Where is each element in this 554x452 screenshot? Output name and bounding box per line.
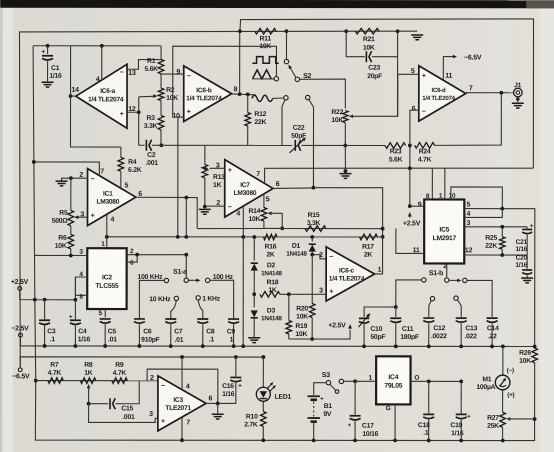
wire bottom cap rail y=346	[20, 345, 534, 348]
switch S1-b contact right	[463, 278, 467, 282]
svg-text:5.6K: 5.6K	[144, 66, 158, 73]
wire IC1 pin 7 left to bus	[34, 162, 100, 176]
node C12 / cap rail	[427, 344, 431, 348]
square wave symbol	[252, 57, 278, 64]
svg-text:3: 3	[149, 411, 153, 418]
wiper arrow R22	[349, 114, 353, 118]
wire IC7 pin 7 up to rail-168	[264, 168, 266, 183]
svg-text:C21: C21	[516, 239, 528, 246]
wire contact-B down to IC7 output line	[309, 99, 314, 187]
wire R2 wiper column down to pin 12 node	[138, 97, 140, 112]
node IC6-a pin4 junction	[100, 44, 104, 48]
switch S3 contact left	[326, 380, 330, 384]
svg-text:R16: R16	[265, 243, 277, 250]
node IC1-out column / rail-237	[184, 235, 188, 239]
wire -6.5V rail: left border up and across top (R11/R21 rail)	[19, 31, 417, 368]
wire R27 bottom to bottom rail	[502, 427, 504, 440]
node rail-228 right / R17 column	[381, 227, 385, 231]
node R13 bottom / IC7 pin2 / ground	[203, 205, 207, 209]
svg-text:R19: R19	[295, 323, 307, 330]
switch S1-a contact 1KHz	[196, 296, 200, 300]
diode D1 1N4148	[309, 243, 316, 245]
resistor R1 5.6K	[160, 46, 162, 59]
wire R5 to R6	[70, 226, 72, 234]
capacitor C7 .01	[165, 318, 176, 320]
capacitor C4 1/16	[74, 300, 76, 320]
svg-text:2K: 2K	[364, 252, 373, 259]
node C17 / bottom rail	[353, 438, 357, 442]
svg-text:−: −	[187, 73, 191, 80]
ground under D3	[248, 337, 260, 339]
node C8 / cap rail	[201, 344, 205, 348]
capacitor C2 .001	[145, 140, 147, 151]
switch S2 contact (square)	[284, 59, 288, 63]
node C13 / cap rail	[459, 344, 463, 348]
potentiometer R27 25K	[500, 412, 506, 427]
node IC1 pin4 / IC2 pin1	[105, 235, 109, 239]
capacitor C23 20pF bracket	[346, 31, 365, 56]
svg-text:1/4 TLE2074: 1/4 TLE2074	[88, 96, 124, 103]
node C4 / IC2 pin4-8 / rail-300	[74, 298, 78, 302]
wire IC4 output rail	[411, 380, 462, 382]
wire IC1 pin 2 stub	[71, 177, 88, 179]
wire R13 wiper to IC7 pin 3	[210, 167, 225, 169]
svg-text:7: 7	[100, 168, 104, 175]
svg-text:10K: 10K	[166, 95, 178, 102]
node C5 / cap rail	[103, 344, 107, 348]
svg-text:1/4 TLE2074: 1/4 TLE2074	[186, 95, 222, 102]
svg-text:D3: D3	[267, 307, 276, 314]
node LED1 / rail-357	[261, 355, 265, 359]
potentiometer R13 1K	[204, 145, 206, 164]
op-amp IC6-c 1/4 TLE2074	[326, 247, 374, 301]
diode D2 1N4148	[251, 262, 258, 264]
switch S1-a contact 100KHz	[164, 278, 168, 282]
svg-text:10: 10	[449, 193, 456, 200]
node R6 bottom / IC2 pin 3	[69, 254, 73, 258]
wire IC4 ground pin to bottom rail	[394, 404, 396, 440]
svg-text:R22: R22	[331, 109, 343, 116]
node IC3 output	[216, 402, 220, 406]
wire D1 node down to R20	[311, 255, 313, 304]
node bus / rail-300	[33, 298, 37, 302]
node C11 / cap rail	[394, 344, 398, 348]
svg-text:R21: R21	[363, 36, 375, 43]
node C19 / output rail	[459, 379, 463, 383]
wire S3 arm	[330, 384, 335, 390]
node C14 / cap rail	[490, 345, 494, 349]
svg-text:1: 1	[378, 267, 382, 274]
wire R18 to R19 node	[280, 293, 289, 295]
svg-text:1K: 1K	[84, 370, 93, 377]
wire IC2 pin 4 / pin 8 tie	[75, 277, 87, 295]
node C18 / output rail	[427, 379, 431, 383]
capacitor C19 1/16	[460, 381, 462, 413]
wire S1-b right contact to C14 top	[467, 280, 492, 317]
svg-text:50pF: 50pF	[370, 334, 385, 341]
op-amp IC1 LM3080	[88, 169, 136, 226]
wire IC6-d pin 11 to -6.5V arrow	[443, 57, 452, 80]
switch S1-a contact 100Hz	[205, 278, 209, 282]
node R20 / +2.5V stub rail	[310, 337, 314, 341]
svg-text:1K: 1K	[213, 182, 222, 189]
svg-text:4: 4	[186, 383, 190, 390]
wire R13 bottom to ground node	[204, 178, 206, 207]
svg-text:5: 5	[125, 182, 129, 189]
wire IC6-b output	[232, 93, 256, 96]
svg-text:R9: R9	[115, 362, 124, 369]
svg-text:1 KHz: 1 KHz	[202, 296, 220, 303]
svg-text:10K: 10K	[248, 216, 260, 223]
resistor R9 4.7K	[112, 378, 128, 384]
wire R23/R24 node down to rail-168	[409, 146, 411, 169]
potentiometer R14 10K	[263, 193, 265, 207]
svg-text:10/16: 10/16	[362, 431, 378, 438]
wire R3 to C2 node	[160, 130, 162, 145]
node junction top rail / C23 right leg	[396, 29, 400, 33]
svg-text:4: 4	[111, 216, 115, 223]
svg-text:6: 6	[208, 395, 212, 402]
svg-text:C16: C16	[222, 383, 234, 390]
wire sine symbol to contact	[273, 97, 284, 99]
node IC6-d output / feedback	[499, 91, 503, 95]
wire rail-357 down to LED1	[262, 357, 264, 387]
svg-text:−: −	[329, 254, 333, 261]
svg-text:.001: .001	[146, 160, 159, 167]
svg-text:IC7: IC7	[240, 182, 250, 189]
svg-text:10K: 10K	[55, 243, 67, 250]
svg-text:.1: .1	[423, 430, 429, 437]
svg-text:C7: C7	[174, 328, 183, 335]
svg-text:.22: .22	[488, 333, 497, 340]
node R10 / bottom rail	[261, 438, 265, 442]
svg-text:TLC555: TLC555	[95, 283, 119, 290]
svg-text:S3: S3	[322, 372, 330, 379]
svg-text:M1: M1	[482, 376, 491, 383]
wire IC5 pin 3 to R25 and C21	[464, 226, 527, 228]
svg-text:22K: 22K	[254, 119, 266, 126]
node right bus / cap rail	[533, 345, 537, 349]
svg-text:S1-a: S1-a	[173, 269, 187, 276]
svg-text:13: 13	[128, 70, 136, 77]
wire left vertical bus upper (rail-46 corner down to +2.5V rail)	[33, 46, 35, 300]
node output/column to top rail	[238, 92, 242, 96]
svg-text:10 KHz: 10 KHz	[149, 296, 171, 303]
svg-text:1/16: 1/16	[451, 430, 464, 437]
wire square contact up to top rail	[285, 31, 287, 59]
node S1-a column / pin2 line	[184, 253, 188, 257]
arrowhead S2 wiper	[288, 65, 292, 70]
resistor R7 4.7K	[48, 378, 64, 384]
node D1 anode / IC6-c pin 2	[310, 253, 314, 257]
node junction top rail / S2 square-wave contact column	[285, 29, 289, 33]
node C6 / cap rail	[137, 344, 141, 348]
wire D1 to pin2 node	[311, 252, 313, 255]
ground at IC1 pin 2	[56, 180, 68, 182]
svg-text:−: −	[228, 204, 232, 211]
svg-text:.01: .01	[175, 337, 184, 344]
wire R1 to R2	[160, 74, 162, 88]
op-amp IC7 LM3080	[225, 160, 273, 218]
wire to IC4 input pin	[355, 380, 376, 382]
wire -2.5V terminal down to cap rail	[19, 337, 21, 346]
ground at J1	[512, 102, 524, 104]
switch S3 arm end	[335, 390, 339, 394]
svg-text:+: +	[91, 213, 95, 220]
svg-text:IC5: IC5	[439, 227, 449, 234]
wire IC6-d pin 6 to R23/R24 junction	[410, 110, 419, 145]
svg-text:IC4: IC4	[388, 374, 398, 381]
svg-text:R20: R20	[296, 306, 308, 313]
op-amp IC6-b 1/4 TLE2074	[184, 66, 232, 122]
svg-text:+2.5V: +2.5V	[328, 322, 346, 329]
svg-text:C4: C4	[78, 328, 87, 335]
wire D2 to R18 node	[253, 271, 255, 295]
wire pin-10 node down to rail-237	[177, 117, 179, 237]
svg-text:C18: C18	[418, 422, 430, 429]
capacitor C18 .1	[428, 381, 430, 413]
resistor R18 1K	[260, 291, 280, 297]
terminal -2.5V	[19, 333, 23, 337]
wire C2 to node	[152, 144, 162, 146]
wire link rail-228 to rail-237	[382, 229, 384, 237]
wire contact to C12 top	[429, 301, 431, 317]
svg-text:IC2: IC2	[102, 274, 112, 281]
resistor R21 10K (top rail)	[355, 28, 379, 34]
ground under R13	[199, 208, 211, 210]
wire rail-237 down to D2	[253, 237, 255, 260]
wire mid rail from C2 node to C22	[161, 144, 292, 146]
wire R8 wiper down to C15 node	[88, 385, 90, 403]
wire rail-168 from IC7 pin7 to right bus corner	[265, 167, 534, 170]
node B1 / bottom rail	[312, 438, 316, 442]
node pin12/R2 wiper/C2 column	[137, 110, 141, 114]
wire node to IC6-c pin 3	[289, 293, 326, 295]
node ground tap	[344, 169, 348, 173]
svg-text:.0022: .0022	[431, 333, 447, 340]
node R17 right	[381, 235, 385, 239]
svg-text:1/4 TLE2074: 1/4 TLE2074	[329, 275, 365, 282]
svg-text:6.2K: 6.2K	[128, 167, 142, 174]
svg-text:IC6-b: IC6-b	[196, 87, 211, 94]
IC IC5 LM2917	[424, 199, 464, 263]
arrowhead +2.5V supply at IC5 pin9	[408, 212, 412, 217]
svg-text:R12: R12	[254, 111, 266, 118]
node IC7 pin4 col / cap rail	[241, 344, 245, 348]
wire across and down to rail-228 right node	[313, 188, 382, 229]
triangle wave symbol	[252, 70, 271, 79]
LED LED1	[256, 387, 270, 401]
svg-text:.1: .1	[50, 336, 56, 343]
node pin3/R25 top	[500, 225, 504, 229]
node junction top rail / C23 left leg	[344, 29, 348, 33]
svg-text:C9: C9	[227, 328, 236, 335]
ground under C20	[521, 277, 533, 279]
wire R20 bottom to +2.5V stub rail	[311, 318, 313, 339]
svg-text:1/4 TLE2074: 1/4 TLE2074	[422, 95, 455, 102]
svg-text:IC1: IC1	[103, 191, 113, 198]
svg-text:−2.5V: −2.5V	[11, 325, 29, 332]
svg-text:9V: 9V	[323, 411, 332, 418]
capacitor C6 910pF	[134, 318, 145, 320]
svg-text:2: 2	[150, 375, 154, 382]
capacitor C14 .22	[487, 317, 498, 319]
node rail-168 / pin9 column	[408, 166, 412, 170]
terminal -6.5V (left border bottom)	[18, 368, 22, 372]
node C19 / bottom rail	[459, 439, 463, 443]
svg-text:1: 1	[230, 336, 234, 343]
svg-text:1/16: 1/16	[515, 262, 527, 269]
arrowhead S1-b wiper	[457, 279, 461, 283]
wire -6.5V rail y=357	[20, 357, 263, 367]
wire top inner rail y=46	[33, 45, 161, 47]
switch S1-b contact left	[422, 278, 426, 282]
svg-text:2K: 2K	[266, 251, 275, 258]
switch S1-b contact mid-right	[454, 296, 458, 300]
wire C23 right leg down through pin5 line to wiper line	[397, 31, 399, 116]
svg-text:IC3: IC3	[173, 397, 183, 404]
wire IC6-a output down and right to R4	[70, 96, 120, 147]
node D2 column / rail-237	[252, 235, 256, 239]
svg-text:10K: 10K	[295, 331, 307, 338]
node R14 / rail-228	[280, 227, 284, 231]
svg-text:R3: R3	[147, 115, 156, 122]
svg-text:C20: C20	[516, 255, 528, 262]
svg-text:1N4148: 1N4148	[261, 270, 282, 277]
svg-text:9: 9	[418, 201, 422, 208]
node C10 / cap rail	[362, 344, 366, 348]
wire IC6-a output stub	[71, 95, 76, 97]
svg-text:4: 4	[236, 210, 240, 217]
svg-text:.022: .022	[464, 333, 477, 340]
wiper arrow R13	[204, 167, 208, 171]
svg-text:C11: C11	[402, 326, 414, 333]
wire contact to C13 top	[458, 300, 462, 317]
svg-text:+2.5V: +2.5V	[11, 279, 29, 286]
svg-text:3.3K: 3.3K	[144, 123, 158, 130]
node R22 bottom / C22 rail	[343, 144, 347, 148]
node pin2/pin6 tie	[135, 253, 139, 257]
svg-text:O: O	[414, 375, 419, 382]
wire IC5 pin 4 up to pin5 node	[464, 209, 502, 218]
node C9 / cap rail	[232, 344, 236, 348]
node IC5 pin9 / +2.5V tap	[408, 204, 412, 208]
node C3 / rail-300	[43, 298, 47, 302]
svg-text:4: 4	[466, 211, 470, 218]
node IC4 gnd / bottom rail	[393, 439, 397, 443]
svg-text:J1: J1	[514, 82, 522, 89]
wire IC7 pin4 column down to cap rail	[242, 237, 244, 346]
svg-text:C23: C23	[368, 65, 380, 72]
resistor R16 2K	[263, 234, 277, 240]
svg-text:+: +	[329, 289, 333, 296]
svg-text:S1-b: S1-b	[429, 269, 443, 277]
svg-text:79L05: 79L05	[384, 383, 402, 390]
wire R22 bottom to C22 rail	[344, 123, 346, 146]
potentiometer R5 500ohm	[70, 178, 72, 210]
svg-text:D1: D1	[292, 243, 301, 250]
svg-text:G: G	[386, 405, 391, 412]
svg-text:2.7K: 2.7K	[244, 421, 258, 428]
wire across to C10 top	[364, 307, 396, 317]
resistor R20 10K	[309, 304, 315, 318]
switch S2 common	[295, 77, 299, 81]
wire LED1 to R10	[262, 401, 264, 411]
svg-text:C5: C5	[108, 328, 117, 335]
switch S3 contact right	[339, 379, 343, 383]
switch S2 contact (triangle)	[274, 76, 278, 80]
svg-text:−: −	[91, 176, 95, 183]
wire IC2 pin 3 left to bus	[35, 254, 87, 256]
wire 100KHz contact to C6	[139, 280, 164, 319]
capacitor C12 .0022	[423, 317, 434, 319]
op-amp IC6-a 1/4 TLE2074 (points left)	[76, 64, 127, 128]
resistor R19 10K	[288, 294, 290, 320]
switch S1-a contact 10KHz	[174, 296, 178, 300]
wiper arrow R5	[74, 215, 78, 219]
node C2 / R3 / main mid rail	[159, 143, 163, 147]
capacitor C11 180pF	[395, 307, 397, 317]
svg-text:D2: D2	[267, 262, 276, 269]
ground below R22 column	[339, 173, 351, 175]
wire rail-168 down to IC5 pin 1	[444, 168, 446, 199]
terminal +2.5V	[18, 287, 22, 291]
wire left vertical bus middle	[35, 300, 36, 381]
wire IC2 pin 5 down to C5	[104, 309, 106, 317]
svg-text:22K: 22K	[485, 243, 497, 250]
svg-text:3: 3	[319, 288, 323, 295]
svg-text:C22: C22	[293, 125, 305, 132]
svg-text:(+): (+)	[507, 392, 514, 399]
svg-text:10: 10	[172, 113, 180, 120]
wire +2.5V terminal to rail-300	[20, 290, 76, 299]
svg-text:6: 6	[276, 181, 280, 188]
node M1 / cap rail	[501, 345, 505, 349]
variable capacitor C10 50pF	[359, 317, 369, 319]
svg-text:+: +	[228, 167, 232, 174]
wire D3 to ground	[253, 318, 255, 337]
svg-text:4.7K: 4.7K	[113, 370, 127, 377]
capacitor C13 .022	[456, 317, 467, 319]
potentiometer R2 10K	[158, 88, 164, 100]
node junction top rail / IC6-b output column	[238, 29, 242, 33]
svg-text:10K: 10K	[363, 45, 375, 52]
diode D3 1N4148	[251, 317, 258, 319]
svg-text:1/16: 1/16	[49, 73, 62, 80]
svg-text:7: 7	[469, 85, 473, 92]
wire triangle-wave baseline	[252, 78, 274, 80]
svg-text:20pF: 20pF	[367, 73, 382, 80]
wire IC2 pin 2 to S1-a column	[127, 254, 187, 256]
svg-text:12: 12	[465, 247, 473, 254]
svg-text:3.3K: 3.3K	[307, 220, 321, 227]
node IC4 input / C17	[353, 379, 357, 383]
wire down to IC5 pin 9	[410, 168, 424, 206]
IC IC2 TLC555	[87, 248, 126, 309]
svg-text:5.6K: 5.6K	[389, 157, 403, 164]
svg-text:R14: R14	[248, 208, 260, 215]
node J1 ground dot	[516, 97, 520, 101]
svg-text:100 KHz: 100 KHz	[138, 274, 164, 281]
resistor R6 10K	[68, 234, 74, 249]
wire IC6-a pin 12 stub	[127, 111, 139, 113]
meter M1 100uA	[502, 346, 504, 375]
wire IC1 output right then down to rail-228	[136, 197, 197, 228]
capacitor C8 .1	[197, 318, 208, 320]
svg-text:7: 7	[256, 171, 260, 178]
op-amp IC6-d 1/4 TLE2074	[419, 66, 466, 121]
node R27 wiper / R26 bottom / bottom loop	[533, 417, 537, 421]
